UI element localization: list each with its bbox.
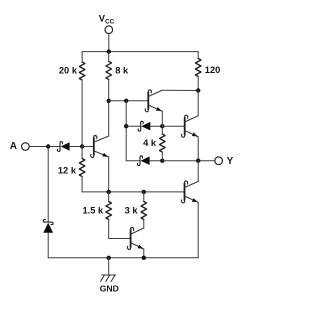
transistor Q6 (squaring network)	[128, 228, 144, 250]
resistor R5 4k	[160, 126, 166, 161]
resistor R6 1.5k	[106, 192, 112, 239]
svg-text:20 k: 20 k	[59, 66, 78, 76]
wire VCC top rail	[82, 51, 198, 53]
transistor Q2 (Darlington driver)	[145, 90, 162, 112]
diode D2 (input clamp)	[43, 147, 53, 258]
wire node E line	[82, 191, 184, 193]
svg-text:12 k: 12 k	[58, 166, 77, 176]
wire Q5 emitter down	[197, 202, 199, 257]
wire Q1 collector up	[108, 101, 110, 136]
wire Q2 emitter down to J1	[161, 111, 163, 126]
junction 8k / Q1 collector	[107, 99, 111, 103]
svg-text:1.5 k: 1.5 k	[83, 206, 105, 216]
wire Q2 collector to 120 node	[162, 89, 198, 91]
junction 4k bottom / output line	[160, 159, 164, 163]
svg-text:120: 120	[205, 65, 221, 75]
wire J1 to Q3 base	[162, 125, 184, 127]
wire input node to Q1 base	[82, 146, 94, 148]
junction VCC rail	[107, 49, 111, 53]
terminal Y	[215, 157, 223, 165]
diode D3 (speed-up upper)	[126, 121, 162, 131]
svg-text:GND: GND	[100, 283, 119, 293]
svg-text:3 k: 3 k	[125, 206, 139, 216]
wire Q1 emitter down	[108, 157, 110, 192]
svg-text:Y: Y	[227, 156, 234, 167]
junction 120 / Q2 / Q3 collector	[196, 88, 200, 92]
junction J1 (Q2 emitter / 4k / Q3 base)	[160, 124, 164, 128]
wire 1.5k to Q6 base	[109, 238, 131, 240]
wire Q5 collector up	[197, 161, 199, 182]
junction 20k/12k input node	[80, 144, 84, 148]
wire input A	[29, 146, 60, 148]
wire Q3 emitter down	[197, 137, 199, 161]
resistor R4 12k	[79, 147, 85, 192]
junction Q1 emitter / 1.5k	[107, 190, 111, 194]
junction input clamp branch	[46, 144, 50, 148]
transistor Q1 (phase splitter)	[91, 136, 109, 158]
resistor R1 20k	[79, 52, 85, 147]
resistor R2 8k	[106, 52, 112, 101]
junction GND stub	[107, 256, 111, 260]
junction 3k top	[142, 190, 146, 194]
wire output Y line	[162, 160, 215, 162]
wire diode branch vertical	[125, 101, 127, 161]
resistor R7 3k	[141, 192, 147, 228]
svg-text:A: A	[10, 141, 17, 152]
transistor Q3 (Darlington output)	[182, 115, 199, 137]
diode D1 (input Schottky)	[57, 142, 82, 152]
svg-text:4 k: 4 k	[143, 138, 157, 148]
diode D4 (speed-up lower)	[126, 156, 162, 166]
terminal VCC	[105, 26, 113, 52]
junction Q6 emitter on rail	[142, 256, 146, 260]
wire Q2 base line	[109, 100, 149, 102]
junction Y / Q3 emitter / Q5 collector	[196, 159, 200, 163]
junction diode branch	[124, 99, 128, 103]
wire Q6 emitter down	[143, 249, 145, 258]
ground	[101, 258, 116, 282]
transistor Q5 (output pull-down)	[181, 181, 198, 203]
resistor R3 120	[195, 52, 201, 91]
wire Q3 collector up	[197, 91, 199, 116]
svg-text:8 k: 8 k	[115, 66, 129, 76]
terminal A	[22, 143, 30, 151]
wire GND rail	[48, 257, 198, 259]
junction D3 cathode	[124, 124, 128, 128]
